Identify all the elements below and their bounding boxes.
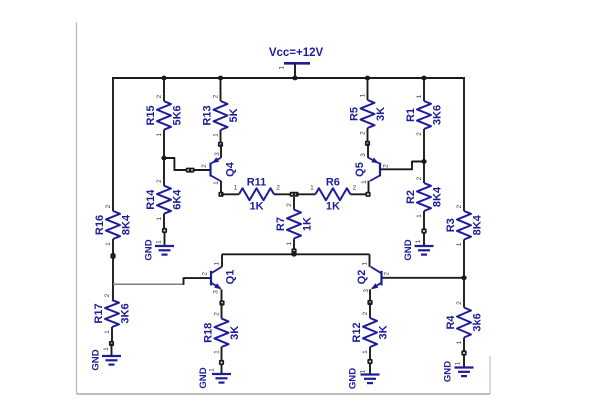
ground GND [443, 356, 474, 383]
wire R17 to pad [111, 327, 113, 344]
svg-text:GND: GND [443, 361, 454, 382]
svg-text:1: 1 [156, 240, 163, 244]
ground GND [91, 347, 121, 371]
svg-text:1: 1 [456, 340, 463, 344]
resistor R6 1K [296, 176, 368, 212]
svg-text:3K: 3K [375, 107, 387, 121]
svg-text:1: 1 [104, 330, 111, 334]
svg-text:2: 2 [362, 311, 369, 315]
svg-text:Q5: Q5 [354, 162, 366, 177]
resistor R1 3K6 [405, 78, 444, 162]
svg-text:R12: R12 [351, 322, 363, 342]
svg-text:2: 2 [201, 164, 208, 168]
svg-text:1K: 1K [326, 200, 340, 212]
junction dot R1 rail [421, 76, 426, 81]
svg-text:R6: R6 [326, 176, 340, 188]
svg-text:R3: R3 [445, 218, 457, 232]
svg-text:8K4: 8K4 [472, 214, 484, 235]
resistor R3 8K4 [445, 204, 484, 246]
wire R3 to node [463, 240, 465, 278]
resistor R15 5K6 [145, 78, 184, 158]
svg-text:1: 1 [361, 262, 368, 266]
pad R16 pin1 [110, 253, 115, 258]
pad pair node R11-R6-R7 [290, 192, 299, 197]
svg-text:1: 1 [103, 347, 110, 351]
svg-text:3K6: 3K6 [120, 303, 132, 323]
svg-text:GND: GND [144, 239, 155, 260]
svg-text:Q4: Q4 [224, 161, 236, 177]
svg-text:2: 2 [456, 301, 463, 305]
svg-text:3: 3 [360, 153, 367, 157]
resistor R13 5K [202, 78, 241, 144]
pad node Q4-R11 [218, 192, 223, 197]
resistor R18 3K [203, 303, 242, 363]
pad node R5-Q5 collector [365, 141, 370, 146]
svg-text:1: 1 [416, 214, 423, 218]
junction dot node R15-R14-Q4base [161, 156, 166, 161]
svg-text:R16: R16 [94, 215, 106, 235]
svg-text:R18: R18 [203, 323, 215, 343]
svg-text:1: 1 [213, 261, 220, 265]
svg-text:5K: 5K [228, 108, 240, 122]
transistor Q5 [354, 143, 390, 194]
svg-text:1: 1 [362, 350, 369, 354]
svg-text:1: 1 [286, 241, 293, 245]
svg-text:2: 2 [383, 164, 390, 168]
svg-text:GND: GND [91, 349, 102, 370]
resistor R11 1K [221, 176, 292, 212]
wire R17 pad to ground [111, 344, 113, 357]
wire right drop to R3 [463, 77, 465, 211]
ground GND [144, 232, 174, 261]
svg-text:3K6: 3K6 [432, 105, 444, 125]
sheet border bottom [77, 393, 491, 395]
svg-text:2: 2 [353, 184, 357, 191]
pad node Q5-R6 [365, 192, 370, 197]
svg-text:2: 2 [156, 179, 163, 183]
resistor R16 8K4 [94, 204, 133, 246]
svg-text:2: 2 [384, 272, 391, 276]
junction dot node R1-R2-Q5base [421, 159, 426, 164]
svg-text:R4: R4 [445, 315, 457, 330]
wire Q4 base from R15-R14 node [164, 158, 211, 170]
svg-text:1: 1 [360, 369, 367, 373]
power bar symbol [279, 63, 310, 69]
resistor R12 3K [351, 303, 390, 362]
svg-text:1K: 1K [302, 217, 314, 231]
wire R16 to R17 [112, 239, 114, 300]
svg-text:2: 2 [104, 293, 111, 297]
junction dot R7 mid rail [291, 252, 296, 257]
wire Q2 base to R3-R4 node [382, 277, 465, 279]
pad R14 pin1 [162, 228, 167, 233]
transistor Q2 [356, 254, 391, 302]
svg-text:R15: R15 [145, 105, 157, 125]
svg-text:2: 2 [456, 204, 463, 208]
svg-text:GND: GND [403, 239, 414, 260]
svg-text:GND: GND [198, 367, 209, 388]
svg-text:2: 2 [213, 94, 220, 98]
pad R17 pin1 [109, 341, 114, 346]
svg-text:1: 1 [214, 350, 221, 354]
junction dot Vcc rail [292, 76, 297, 81]
svg-text:Vcc=+12V: Vcc=+12V [269, 47, 324, 59]
pad node R13-Q4 collector [218, 142, 223, 147]
svg-text:R11: R11 [247, 176, 267, 188]
svg-text:2: 2 [214, 312, 221, 316]
svg-text:8K4: 8K4 [432, 186, 444, 207]
svg-text:1K: 1K [249, 200, 263, 212]
junction dot R13 rail [218, 76, 223, 81]
wire top rail [112, 77, 464, 79]
svg-text:1: 1 [456, 242, 463, 246]
svg-text:1: 1 [310, 184, 314, 191]
svg-text:1: 1 [361, 180, 368, 184]
junction dot R5 rail [365, 76, 370, 81]
svg-text:R1: R1 [405, 108, 417, 122]
svg-text:1: 1 [416, 94, 423, 98]
svg-text:1: 1 [234, 184, 238, 191]
resistor R4 3k6 [445, 278, 484, 353]
svg-text:Q1: Q1 [224, 270, 236, 285]
wire R7 pad to mid rail [293, 251, 295, 254]
pad R7 pin1 [291, 248, 296, 253]
transistor Q4 [201, 144, 236, 194]
wire Q5 base to R1-R2 node [380, 162, 424, 170]
svg-text:1: 1 [455, 361, 462, 365]
ground GND [198, 365, 231, 389]
svg-text:1: 1 [213, 133, 220, 137]
resistor R2 8K4 [405, 162, 444, 232]
wire Vcc stem [294, 63, 296, 78]
svg-text:R14: R14 [145, 189, 157, 210]
svg-text:3k6: 3k6 [472, 313, 484, 331]
svg-text:2: 2 [416, 176, 423, 180]
ground GND [348, 364, 380, 389]
svg-text:3: 3 [363, 289, 370, 293]
svg-text:2: 2 [360, 131, 367, 135]
svg-text:1: 1 [213, 181, 220, 185]
svg-text:R17: R17 [93, 303, 105, 323]
svg-text:R13: R13 [202, 105, 214, 125]
svg-text:5K6: 5K6 [172, 105, 184, 125]
svg-text:2: 2 [156, 95, 163, 99]
svg-text:1: 1 [156, 133, 163, 137]
svg-text:8K4: 8K4 [121, 214, 133, 235]
svg-text:R7: R7 [275, 217, 287, 231]
resistor R5 3K [349, 78, 388, 143]
ground GND [403, 233, 433, 261]
svg-text:R5: R5 [349, 107, 361, 121]
pad Q1 emitter [219, 300, 224, 305]
svg-text:3: 3 [214, 152, 221, 156]
pad R4 pin1 [461, 350, 466, 355]
svg-text:6K4: 6K4 [172, 189, 184, 210]
svg-text:2: 2 [416, 132, 423, 136]
pad pair Q4 base wire [186, 168, 195, 173]
pad R18 pin1 [219, 360, 224, 365]
svg-text:3K: 3K [378, 325, 390, 339]
svg-text:1: 1 [279, 65, 286, 69]
resistor R14 6K4 [145, 158, 184, 231]
svg-text:1: 1 [209, 368, 216, 372]
pad R12 pin1 [367, 359, 372, 364]
transistor Q1 [202, 254, 237, 303]
svg-text:GND: GND [348, 368, 359, 389]
pad Q2 emitter [367, 300, 372, 305]
wire left drop to R16 [112, 77, 114, 211]
svg-text:1: 1 [156, 217, 163, 221]
wire Q1 base from R16-R17 node [113, 283, 184, 285]
resistor R17 3K6 [93, 293, 132, 334]
junction dot R15 rail [161, 76, 166, 81]
svg-text:2: 2 [105, 204, 112, 208]
resistor R7 1K [275, 197, 314, 251]
svg-text:R2: R2 [405, 190, 417, 204]
svg-text:1: 1 [415, 239, 422, 243]
wire Q1 base jog [184, 278, 212, 285]
svg-text:2: 2 [276, 184, 280, 191]
svg-text:2: 2 [286, 203, 293, 207]
svg-text:1: 1 [105, 242, 112, 246]
sheet border right [489, 356, 491, 394]
svg-text:Q2: Q2 [356, 270, 368, 285]
svg-text:2: 2 [202, 272, 209, 276]
svg-text:3K: 3K [229, 326, 241, 340]
pad R2 pin1 [421, 228, 426, 233]
junction dot node R3-R4-Q2base [461, 275, 466, 280]
svg-text:1: 1 [360, 93, 367, 97]
wire mid rail Q1-R7-Q2 [222, 253, 370, 255]
sheet border left [76, 22, 78, 394]
svg-text:3: 3 [213, 290, 220, 294]
